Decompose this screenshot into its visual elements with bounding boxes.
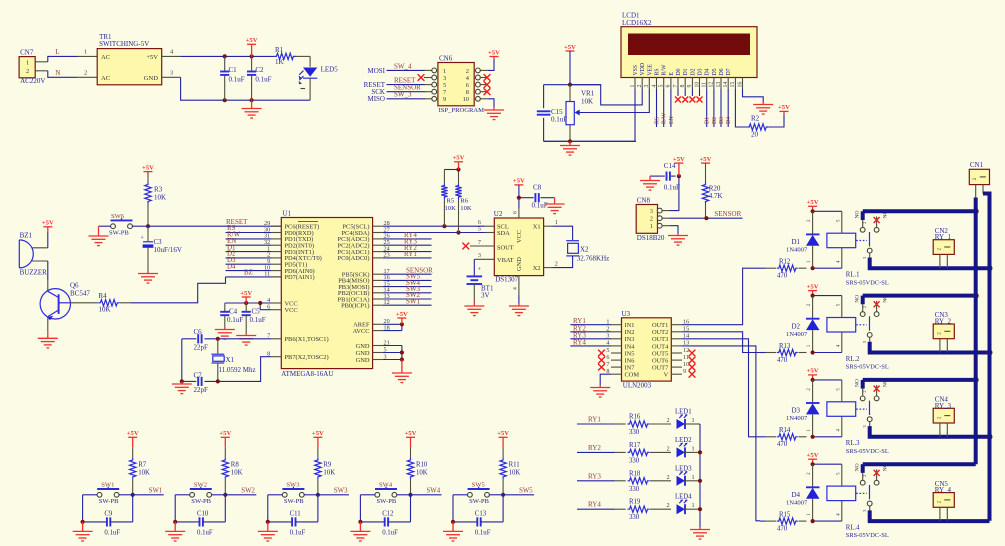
wire SCL row [383, 225, 486, 227]
relay RL.2 common contact [867, 333, 872, 338]
wire RY4 [577, 508, 615, 510]
thick rail NO to bus [863, 378, 976, 382]
svg-text:RY3: RY3 [588, 472, 601, 480]
svg-text:NO: NO [855, 463, 861, 471]
svg-text:C3: C3 [154, 238, 163, 246]
svg-text:3: 3 [443, 75, 446, 82]
svg-text:SW6: SW6 [111, 213, 125, 220]
capacitor C10 0.1uF [175, 521, 199, 523]
wire +5V rail top [181, 55, 275, 57]
resistor R9 10K [317, 447, 319, 458]
svg-text:R4: R4 [99, 292, 108, 300]
svg-text:C1: C1 [229, 66, 238, 74]
net label SW1 [133, 494, 164, 496]
wire left rail to ground [181, 339, 183, 382]
svg-text:R13: R13 [779, 343, 791, 350]
node SW2 [223, 493, 227, 497]
wire RESET [387, 84, 426, 86]
no-connect X IN5 IN6 IN7 [598, 350, 605, 357]
wire relay bottom [813, 267, 842, 269]
svg-text:0.1uF: 0.1uF [382, 530, 398, 537]
wire SW1 left [83, 494, 98, 496]
svg-text:1: 1 [692, 445, 695, 452]
svg-text:MOSI: MOSI [367, 67, 385, 75]
U3 pin stubs [611, 324, 622, 326]
svg-text:+5V: +5V [142, 164, 154, 171]
svg-text:SWITCHING-5V: SWITCHING-5V [99, 40, 149, 48]
wire SENSOR net [669, 217, 742, 219]
relay RL.1 contact NC no-connect [874, 227, 879, 232]
resistor R10 10K [410, 447, 412, 458]
wire MISO [387, 98, 426, 100]
switch SW5 SW-PB [468, 492, 473, 497]
svg-text:10K: 10K [416, 470, 428, 477]
svg-text:LED1: LED1 [675, 409, 692, 416]
relay coil RL.3 [827, 402, 856, 417]
svg-text:NO: NO [855, 379, 861, 387]
svg-text:10uF/16V: 10uF/16V [154, 246, 182, 254]
thick rail NO to bus [863, 209, 976, 213]
relay RL.4 contact NO [860, 480, 865, 485]
ground C10 [173, 520, 177, 524]
svg-text:D6: D6 [719, 68, 725, 75]
svg-text:CN7: CN7 [20, 49, 34, 57]
svg-text:R9: R9 [323, 462, 332, 469]
svg-text:U2: U2 [494, 210, 503, 218]
svg-text:0.1uF: 0.1uF [475, 530, 491, 537]
svg-text:15: 15 [730, 82, 736, 88]
svg-text:12: 12 [683, 347, 689, 354]
svg-text:1: 1 [650, 223, 653, 230]
svg-text:BC547: BC547 [70, 290, 90, 298]
svg-text:RL.3: RL.3 [846, 440, 860, 447]
wire VSS pin1 [544, 89, 635, 141]
relay RL.4 armature [856, 492, 867, 494]
LCD screen area [628, 34, 750, 56]
svg-text:RL.1: RL.1 [846, 272, 860, 279]
svg-text:NO: NO [855, 210, 861, 218]
svg-text:C13: C13 [475, 511, 487, 518]
connector CN8 DS18B20 [636, 205, 657, 234]
svg-text:SW4: SW4 [379, 481, 393, 488]
svg-text:LED2: LED2 [675, 437, 692, 444]
svg-text:VDD: VDD [640, 63, 646, 76]
ground bottom rail [242, 100, 262, 118]
power +5V top rail [246, 37, 258, 44]
svg-text:PB6(X1,TOSC1): PB6(X1,TOSC1) [285, 336, 329, 343]
svg-text:GND: GND [356, 350, 370, 357]
svg-text:22pF: 22pF [194, 344, 209, 352]
svg-text:D3: D3 [719, 117, 725, 124]
U2 X1 X2 pins [544, 225, 553, 227]
connector CN7 [19, 57, 35, 78]
power +5V relay RL.1 [807, 199, 819, 206]
resistor R11 10K [502, 447, 504, 458]
resistor R12 470 [760, 267, 766, 269]
wire CN8 pin1 to ground [669, 226, 678, 233]
wire gnd rail bottom [181, 77, 311, 100]
VR1 wiper arrow [575, 110, 580, 116]
svg-text:2: 2 [555, 260, 558, 267]
svg-text:SW-PB: SW-PB [99, 498, 119, 505]
svg-text:LCD16X2: LCD16X2 [622, 19, 652, 27]
svg-text:X2: X2 [580, 246, 589, 254]
svg-text:D3: D3 [698, 68, 704, 75]
wire N [48, 71, 77, 78]
svg-text:3: 3 [650, 208, 653, 215]
svg-text:11: 11 [683, 354, 689, 361]
svg-text:0.1uF: 0.1uF [104, 530, 120, 537]
resistor R17 330 [615, 451, 626, 453]
svg-text:1: 1 [26, 59, 29, 66]
svg-text:VEE: VEE [647, 64, 653, 76]
wire VR1 left branch lower [543, 118, 545, 142]
svg-text:12: 12 [709, 82, 715, 88]
svg-text:C6: C6 [194, 328, 203, 336]
svg-text:ULN2003: ULN2003 [623, 382, 652, 390]
svg-text:SW-PB: SW-PB [191, 498, 211, 505]
svg-text:OUT2: OUT2 [652, 329, 668, 336]
wires RY1-RY4 inputs [570, 324, 611, 326]
svg-text:D1: D1 [791, 238, 800, 246]
U2 VCC pin 8 to +5V [513, 178, 525, 185]
wire COM to ground [600, 374, 611, 385]
power +5V C14 [673, 156, 685, 163]
svg-text:470: 470 [777, 441, 788, 448]
svg-text:SENSOR: SENSOR [714, 210, 741, 218]
ground VR1 [560, 141, 580, 155]
svg-text:4: 4 [513, 287, 519, 290]
svg-text:GND: GND [516, 257, 523, 271]
svg-text:10K: 10K [581, 97, 593, 105]
node SW6/C3/RESET [146, 224, 150, 228]
svg-text:10: 10 [694, 82, 700, 88]
svg-text:R6: R6 [460, 197, 468, 204]
node SW3 [316, 493, 320, 497]
svg-text:5: 5 [606, 347, 609, 354]
relay RL.2 armature [856, 324, 867, 326]
capacitor C15 0.1uF [537, 110, 551, 112]
diode D1 1N4007 [812, 211, 814, 234]
svg-text:X1: X1 [226, 356, 235, 364]
svg-text:1N4007: 1N4007 [786, 500, 808, 507]
svg-text:SW2: SW2 [241, 487, 255, 494]
svg-text:0.1uF: 0.1uF [229, 76, 245, 84]
LED5 [309, 56, 311, 66]
svg-text:1: 1 [555, 219, 558, 226]
power +5V VCC [240, 290, 252, 297]
connector CN4 RY_3 [933, 408, 954, 423]
wire SW4 right vertical [410, 495, 412, 522]
connector CN2 RY_1 [933, 240, 954, 255]
svg-text:C8: C8 [533, 184, 542, 192]
svg-text:R17: R17 [629, 442, 641, 449]
svg-text:13: 13 [716, 82, 722, 88]
svg-text:6: 6 [466, 82, 469, 89]
resistor R7 10K [132, 447, 134, 458]
svg-text:10: 10 [683, 361, 689, 368]
svg-text:SW5: SW5 [519, 487, 533, 494]
wire OUT4 to relay4 [682, 346, 760, 521]
svg-text:SOUT: SOUT [497, 245, 514, 252]
wire SW3 left [268, 494, 283, 496]
svg-text:SW1: SW1 [406, 297, 421, 305]
svg-text:8: 8 [513, 211, 519, 214]
power +5V relay RL.3 [807, 368, 819, 375]
svg-text:SW3: SW3 [286, 481, 300, 488]
svg-text:RY_1: RY_1 [935, 233, 952, 241]
ground C3 [138, 271, 158, 283]
svg-text:1N4007: 1N4007 [786, 415, 808, 422]
svg-text:R5: R5 [447, 197, 455, 204]
svg-text:SW1: SW1 [101, 481, 114, 488]
buzzer pin stubs [32, 247, 48, 249]
svg-text:6: 6 [606, 354, 609, 361]
svg-text:R19: R19 [629, 499, 641, 506]
svg-text:N: N [55, 69, 60, 77]
svg-text:SW4: SW4 [427, 487, 441, 494]
svg-text:10K: 10K [231, 470, 243, 477]
svg-text:R15: R15 [779, 511, 791, 518]
svg-text:C4: C4 [229, 307, 238, 315]
svg-text:10K: 10K [509, 470, 521, 477]
relay RL.3 contact NO [860, 396, 865, 401]
relay RL.2 contact NO [860, 312, 865, 317]
U1 left net stubs [226, 232, 272, 234]
connector CN3 RY_2 [933, 324, 954, 339]
svg-text:0.1uF: 0.1uF [255, 76, 271, 84]
capacitor C6 22pF [197, 334, 199, 343]
svg-text:330: 330 [629, 514, 640, 521]
svg-text:SW2: SW2 [194, 481, 207, 488]
U2 GND pin 4 [518, 276, 520, 295]
svg-text:D0: D0 [676, 68, 682, 75]
relay coil RL.1 [827, 233, 856, 248]
svg-text:SW-PB: SW-PB [377, 498, 397, 505]
svg-text:RY_4: RY_4 [935, 486, 952, 494]
svg-text:2: 2 [84, 70, 87, 77]
svg-text:OUT4: OUT4 [652, 343, 669, 350]
svg-text:BZ: BZ [244, 269, 253, 277]
svg-text:7: 7 [606, 361, 609, 368]
svg-text:PD7(AIN1): PD7(AIN1) [285, 274, 315, 281]
svg-text:1: 1 [84, 49, 87, 56]
ground LEDs [690, 527, 710, 539]
svg-text:IN2: IN2 [625, 329, 635, 336]
capacitor C13 0.1uF [453, 521, 477, 523]
capacitor C12 0.1uF [360, 521, 384, 523]
svg-text:2: 2 [466, 68, 469, 75]
svg-text:2: 2 [667, 474, 670, 481]
LCD pin stubs [634, 78, 636, 90]
relay RL.4 common contact [867, 501, 872, 506]
resistor R8 10K [224, 447, 226, 458]
svg-text:1N4007: 1N4007 [786, 247, 808, 254]
relay coil RL.2 [827, 318, 856, 333]
wire SW1 right vertical [132, 495, 134, 522]
resistor R13 470 [760, 352, 766, 354]
connector CN5 RY_4 [933, 493, 954, 508]
U1 VCC pins 4 and 6 [271, 302, 281, 304]
svg-text:+5V: +5V [807, 368, 819, 375]
net label SW2 [225, 494, 256, 496]
svg-text:IN1: IN1 [625, 322, 635, 329]
svg-text:2: 2 [667, 502, 670, 509]
svg-text:OUT3: OUT3 [652, 336, 668, 343]
svg-text:SW5: SW5 [472, 481, 486, 488]
svg-text:C7: C7 [194, 372, 203, 380]
IC U2 DS1307 body [494, 218, 543, 276]
capacitor C7 22pF [197, 377, 199, 386]
power +5V relay RL.2 [807, 283, 819, 290]
resistor R16 330 [615, 423, 626, 425]
svg-text:RS: RS [655, 117, 661, 124]
svg-text:32.768KHz: 32.768KHz [577, 254, 609, 262]
svg-text:RY2: RY2 [588, 444, 601, 452]
relay RL.3 common contact [867, 417, 872, 422]
node SW5 [501, 493, 505, 497]
CN8 pins [657, 208, 662, 213]
svg-text:RY_2: RY_2 [935, 318, 952, 326]
svg-text:PB7(X2,TOSC2): PB7(X2,TOSC2) [285, 354, 329, 361]
svg-text:BZ1: BZ1 [20, 231, 33, 239]
wire pin2 to +5V [488, 60, 494, 71]
capacitor C2 0.1uF [251, 56, 253, 71]
svg-text:R2: R2 [751, 115, 760, 123]
wire RY3 [577, 480, 615, 482]
svg-text:L: L [55, 48, 59, 56]
wire SW5 right vertical [502, 495, 504, 522]
svg-text:SRS-05VDC-SL: SRS-05VDC-SL [846, 364, 889, 371]
wire GND pins common [401, 346, 403, 360]
svg-text:D2: D2 [690, 68, 696, 75]
left pins CN6 [432, 68, 437, 73]
svg-text:SW1: SW1 [149, 487, 163, 494]
svg-text:EN: EN [669, 115, 675, 124]
svg-text:Q6: Q6 [70, 282, 79, 290]
U1 right pin stubs PC [373, 225, 383, 227]
svg-text:0.1uF: 0.1uF [197, 530, 213, 537]
svg-text:GND: GND [356, 357, 370, 364]
wire PB7 to bottom row [205, 357, 272, 382]
resistor R14 470 [760, 436, 766, 438]
switch SW4 SW-PB [375, 492, 380, 497]
wire SW2 right vertical [224, 495, 226, 522]
resistor R5 10K [443, 170, 445, 184]
svg-text:C9: C9 [104, 511, 113, 518]
net label SW3 [318, 494, 349, 496]
svg-text:+5V: +5V [219, 430, 231, 437]
wire OUT3 to relay3 [682, 339, 760, 437]
svg-text:14: 14 [723, 82, 729, 88]
svg-text:9: 9 [443, 96, 446, 103]
U2 pin stubs left [485, 225, 494, 227]
switch SW1 SW-PB [97, 492, 102, 497]
net label SW5 [503, 494, 534, 496]
right pins CN6 [476, 68, 481, 73]
svg-text:10K: 10K [323, 470, 335, 477]
transformer module TR1 SWITCHING-5V [97, 49, 162, 85]
net label SW4 [411, 494, 442, 496]
svg-text:SW-PB: SW-PB [109, 230, 129, 237]
svg-text:RL.2: RL.2 [846, 356, 860, 363]
svg-text:+5V: +5V [127, 430, 139, 437]
svg-text:U3: U3 [622, 310, 631, 318]
svg-text:20: 20 [751, 131, 759, 139]
Q6 emitter to ground [47, 317, 49, 332]
svg-text:2: 2 [667, 417, 670, 424]
svg-text:0.1uF: 0.1uF [250, 316, 266, 324]
no-connect X pin3 [418, 74, 425, 81]
svg-text:D5: D5 [712, 68, 718, 75]
U1 PB7 pin 8 [271, 356, 281, 358]
svg-text:SW3: SW3 [334, 487, 348, 494]
svg-text:2: 2 [667, 445, 670, 452]
wire R4 to U1 BZ pin [131, 277, 226, 303]
svg-text:+5V: +5V [700, 156, 712, 163]
svg-text:PC0(ADC0): PC0(ADC0) [338, 255, 370, 262]
svg-text:D1: D1 [705, 117, 711, 124]
svg-text:+5V: +5V [396, 311, 408, 318]
svg-text:DS18B20: DS18B20 [637, 234, 665, 242]
svg-text:VCC: VCC [516, 230, 523, 243]
wire OUT2 to relay2 [682, 332, 760, 353]
svg-text:RY4: RY4 [588, 501, 601, 509]
wire R2 to +5V [768, 115, 784, 128]
svg-text:OUT6: OUT6 [652, 358, 668, 365]
svg-text:DS1307: DS1307 [495, 275, 518, 283]
svg-text:OUT7: OUT7 [652, 365, 669, 372]
svg-text:R16: R16 [629, 414, 641, 421]
node SW1 [131, 493, 135, 497]
svg-text:VCC: VCC [285, 307, 298, 314]
svg-text:SW-PB: SW-PB [469, 498, 489, 505]
wire SW6 to ground [99, 225, 111, 227]
svg-text:MISO: MISO [367, 95, 385, 103]
svg-text:ISP_PROGRAM: ISP_PROGRAM [439, 107, 485, 114]
resistor R18 330 [615, 480, 626, 482]
wire relay top [813, 210, 842, 212]
svg-text:R14: R14 [779, 427, 791, 434]
relay RL.3 contact NC no-connect [874, 396, 879, 401]
relay RL.1 contact NO [860, 227, 865, 232]
U2 VBAT pin 3 [474, 258, 494, 260]
svg-text:1N4007: 1N4007 [786, 331, 808, 338]
svg-text:RS: RS [655, 68, 661, 75]
node SW4 [408, 493, 412, 497]
svg-text:+: + [140, 235, 144, 242]
svg-text:D4: D4 [705, 68, 711, 75]
svg-text:C14: C14 [664, 162, 676, 170]
no-connect X OUT5 OUT6 OUT7 V [689, 350, 696, 357]
svg-text:RL.4: RL.4 [846, 524, 860, 531]
svg-text:X2: X2 [533, 265, 541, 272]
svg-text:3: 3 [644, 85, 650, 88]
svg-text:16: 16 [737, 82, 743, 88]
svg-text:CN6: CN6 [439, 54, 453, 62]
wire VR1 bottom rail [544, 140, 636, 142]
svg-text:11: 11 [702, 82, 708, 88]
svg-text:R/W: R/W [662, 113, 668, 124]
svg-text:D4: D4 [227, 262, 236, 270]
svg-text:1: 1 [443, 68, 446, 75]
svg-text:+5V: +5V [146, 54, 158, 61]
svg-text:C5: C5 [252, 307, 261, 315]
resistor R3 10K [147, 172, 149, 183]
resistor R4 10K [71, 302, 99, 304]
svg-text:330: 330 [629, 457, 640, 464]
svg-text:7: 7 [478, 239, 481, 246]
